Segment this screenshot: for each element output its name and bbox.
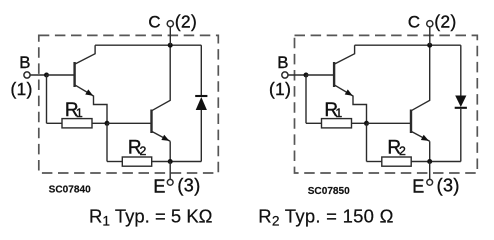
transistor Q2 collector (SC07850): [411, 45, 430, 111]
svg-text:2: 2: [399, 144, 406, 158]
wire: base node down to R1 (SC07840): [46, 75, 48, 123]
wire: diode branch upper (SC07840): [200, 45, 202, 96]
terminal B circle (SC07850): [282, 72, 288, 78]
wire: Q2 emitter down to E node (SC07840): [169, 141, 171, 161]
wire: R2 right lead (SC07850): [411, 161, 430, 163]
transistor Q2 emitter arrow (SC07850): [421, 135, 429, 141]
wire: diode branch upper (SC07850): [460, 45, 462, 95]
wire: R2 left lead (SC07840): [107, 161, 122, 163]
wire: diode branch to E node (SC07850): [430, 161, 461, 163]
terminal E circle (SC07840): [167, 179, 173, 185]
transistor Q1 base bar (SC07850): [333, 62, 335, 87]
svg-text:B: B: [277, 53, 288, 72]
dashed package outline (SC07840): [39, 35, 219, 173]
transistor Q1 base bar (SC07840): [73, 62, 75, 87]
wire: E node to E terminal (SC07840): [169, 162, 171, 180]
wire: node to Q2 base (SC07850): [367, 122, 411, 124]
terminal B circle (SC07840): [24, 72, 30, 78]
junction dot: base node (SC07850): [304, 73, 309, 78]
transistor Q2 emitter arrow (SC07840): [161, 135, 169, 141]
junction dot: collector node (SC07850): [427, 43, 432, 48]
svg-text:E: E: [412, 177, 424, 197]
svg-text:(2): (2): [434, 12, 456, 32]
svg-text:1: 1: [335, 106, 342, 120]
resistor R1 (SC07850): [322, 119, 352, 128]
wire: B terminal into package (SC07840): [30, 74, 46, 76]
wire: node to Q2 base (SC07840): [107, 122, 151, 124]
resistor R1 (SC07840): [62, 119, 92, 128]
junction dot: emitter node (SC07850): [427, 159, 432, 164]
wire: R1 right lead (SC07850): [352, 122, 367, 124]
transistor Q1 emitter arrow (SC07840): [85, 89, 93, 95]
wire: base node down to R1 (SC07850): [305, 75, 307, 123]
terminal C circle (SC07850): [427, 21, 433, 27]
svg-text:1: 1: [76, 106, 83, 120]
wire: R1 left lead (SC07840): [47, 122, 63, 124]
svg-text:(2): (2): [175, 12, 197, 32]
junction dot: emitter node (SC07840): [168, 159, 173, 164]
wire: top rail collector net (SC07840): [95, 44, 201, 46]
wire: diode branch lower (SC07840): [200, 110, 202, 162]
svg-text:(3): (3): [437, 175, 460, 195]
wire: top rail collector net (SC07850): [355, 44, 461, 46]
junction dot: Q2 base node (SC07850): [364, 121, 369, 126]
wire: diode branch to E node (SC07840): [170, 161, 201, 163]
svg-text:C: C: [148, 13, 160, 32]
transistor Q2 emitter (SC07850): [411, 131, 430, 141]
junction dot: collector node (SC07840): [168, 43, 173, 48]
svg-text:E: E: [153, 177, 165, 197]
wire: diode branch lower (SC07850): [460, 108, 462, 162]
transistor Q1 collector (SC07850): [334, 45, 355, 64]
transistor Q1 emitter arrow (SC07850): [345, 89, 353, 95]
wire: R1 left lead (SC07850): [306, 122, 322, 124]
svg-text:SC07850: SC07850: [308, 186, 350, 197]
transistor Q2 base bar (SC07840): [150, 110, 152, 134]
wire: Q2 emitter down to E node (SC07850): [429, 141, 431, 161]
svg-text:(3): (3): [177, 175, 200, 195]
terminal C circle (SC07840): [167, 21, 173, 27]
transistor Q2 base bar (SC07850): [410, 110, 412, 134]
diode D1 cathode-down (SC07850): [455, 96, 467, 108]
wire: Q1 emitter to Q2 base node (SC07840): [94, 96, 108, 124]
wire: node down to R2 (SC07850): [366, 123, 368, 161]
svg-text:(1): (1): [11, 79, 33, 99]
svg-text:SC07840: SC07840: [49, 185, 91, 196]
wire: rail up to C terminal (SC07850): [429, 27, 431, 45]
wire: base node to Q1 base (SC07840): [47, 74, 74, 76]
svg-text:2: 2: [140, 144, 147, 158]
svg-text:B: B: [19, 53, 30, 72]
dashed package outline (SC07850): [295, 35, 478, 173]
wire: node down to R2 (SC07840): [106, 123, 108, 161]
svg-text:(1): (1): [269, 79, 291, 99]
wire: E node to E terminal (SC07850): [429, 162, 431, 180]
junction dot: Q2 base node (SC07840): [105, 121, 110, 126]
transistor Q2 collector (SC07840): [152, 45, 171, 111]
transistor Q1 emitter (SC07850): [334, 85, 353, 96]
transistor Q1 emitter (SC07840): [75, 85, 94, 96]
transistor Q2 emitter (SC07840): [152, 131, 171, 141]
wire: R1 right lead (SC07840): [92, 122, 107, 124]
diode D1 anode-up (SC07840): [195, 96, 207, 110]
wire: Q1 emitter to Q2 base node (SC07850): [353, 96, 367, 124]
wire: rail up to C terminal (SC07840): [169, 27, 171, 45]
transistor Q1 collector (SC07840): [75, 45, 96, 64]
svg-text:C: C: [408, 13, 420, 32]
wire: base node to Q1 base (SC07850): [306, 74, 333, 76]
terminal E circle (SC07850): [427, 179, 433, 185]
resistor R2 (SC07840): [122, 157, 151, 166]
resistor R2 (SC07850): [382, 157, 411, 166]
junction dot: base node (SC07840): [44, 73, 49, 78]
wire: R2 left lead (SC07850): [367, 161, 382, 163]
wire: R2 right lead (SC07840): [152, 161, 171, 163]
wire: B terminal into package (SC07850): [288, 74, 306, 76]
